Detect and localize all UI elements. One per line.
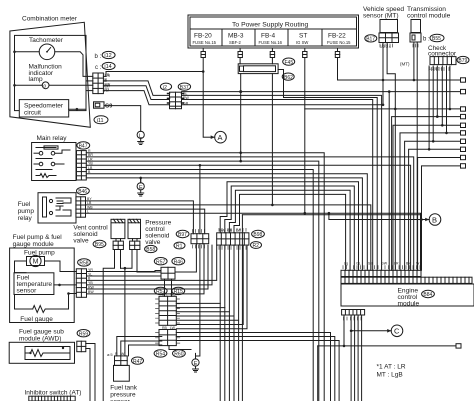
svg-text:i2: i2 [163, 85, 167, 91]
svg-text:Speedometer: Speedometer [24, 103, 64, 110]
wire MB-3 vertical [240, 74, 242, 162]
wire tab row 8 [422, 166, 461, 270]
wire R58 row3 [87, 245, 217, 280]
label pressure control solenoid valve [145, 220, 171, 247]
tachometer [29, 37, 64, 60]
wire main relay row6 [86, 174, 367, 271]
wire comb meter row1 to i2 connector [103, 81, 169, 96]
wire B98 riser 2 [225, 186, 354, 270]
connector R59 [77, 330, 90, 352]
connector B47 [77, 142, 90, 150]
node A [204, 131, 226, 143]
wire meter internal [86, 80, 93, 82]
wire solenoid pressure drop 1 [121, 250, 133, 269]
wire B98 riser 3 [229, 190, 350, 270]
wire R59 down 2 [86, 349, 90, 401]
svg-text:circuit: circuit [24, 110, 41, 117]
wire tab row 6 [409, 149, 461, 270]
svg-text:b :: b : [95, 54, 102, 60]
fuel temperature sensor [14, 273, 54, 295]
wire FB-22 drop [335, 49, 460, 82]
svg-text:1 2 3 4: 1 2 3 4 [380, 45, 391, 49]
svg-text:B47: B47 [79, 144, 88, 150]
wire B37 out row4 [182, 104, 384, 106]
svg-text:Fuel: Fuel [18, 201, 31, 208]
wire MIL left [15, 84, 43, 86]
svg-text:R54: R54 [156, 352, 165, 358]
svg-text:B37: B37 [180, 85, 189, 91]
svg-text:LW: LW [170, 326, 176, 330]
svg-text:1 3 5 7 9: 1 3 5 7 9 [429, 67, 443, 71]
svg-text:MB-3: MB-3 [228, 33, 244, 40]
wire tab row 2 [392, 117, 461, 271]
connector R1 [174, 242, 185, 250]
wire vss pin1 [382, 43, 384, 105]
check connector drop 3 [441, 66, 444, 127]
svg-text:Fuel pump & fuel: Fuel pump & fuel [13, 234, 63, 241]
svg-text:B95: B95 [95, 242, 104, 248]
svg-text:B46: B46 [78, 189, 87, 195]
svg-text:FB-4: FB-4 [261, 33, 275, 40]
note AT/MT [377, 364, 406, 379]
check connector drop 2 [436, 66, 439, 118]
svg-text:a:5: a:5 [107, 352, 113, 357]
B97 pin labels [193, 230, 205, 249]
wire main relay row3 [86, 160, 318, 401]
svg-text:To Power Supply Routing: To Power Supply Routing [232, 22, 309, 29]
wire R54/R60 ground [169, 346, 191, 350]
connector R58 [76, 259, 90, 298]
svg-text:FUSE No.15: FUSE No.15 [327, 40, 351, 45]
wire B feed [329, 213, 423, 221]
svg-text:control module: control module [407, 13, 451, 20]
vss pin labels [380, 44, 393, 47]
svg-text:R1: R1 [176, 244, 183, 250]
svg-text:FB-22: FB-22 [328, 33, 346, 40]
wire R58 row4 [87, 245, 213, 285]
svg-text:valve: valve [145, 239, 161, 246]
wire MB-3 drop [238, 49, 242, 64]
wire R59 down 1 [86, 344, 95, 401]
wire tab row 1 [305, 108, 461, 110]
connector R54/R60 block [154, 330, 185, 358]
wire tachometer signal [103, 72, 203, 77]
wire speedo right [69, 108, 86, 110]
wire R57/R46 down 1 [164, 279, 166, 296]
check connector drop 5 [449, 66, 452, 110]
connector B97 block [176, 230, 208, 243]
wire B98 riser 4 [234, 194, 346, 270]
wire temp sensor [54, 284, 76, 286]
wire fuel pump relay row2 [86, 205, 371, 270]
connector i12/i14 labels [95, 54, 102, 71]
connector F45/B62 [238, 58, 295, 81]
connector R47 [132, 357, 144, 365]
svg-text:sensor: sensor [17, 288, 38, 295]
svg-text:i14: i14 [104, 64, 111, 70]
svg-text:o: o [43, 84, 46, 90]
connector B17 [365, 35, 377, 43]
wire main relay row7 [86, 177, 362, 271]
svg-text:B84: B84 [423, 292, 432, 298]
svg-text:C: C [394, 327, 400, 336]
connector R57/R46 [154, 258, 184, 280]
fuel tank pressure sensor [110, 356, 137, 401]
wire MIL right [49, 84, 93, 86]
micro wire labels [87, 45, 443, 356]
svg-text:M: M [33, 259, 39, 266]
R57/R15 pin ticks [156, 299, 180, 323]
svg-text:pump: pump [18, 208, 35, 215]
pressure control solenoid valve 1 [128, 219, 141, 249]
wire B98 bottom drop 1 [176, 245, 220, 401]
svg-text:B58: B58 [146, 247, 155, 253]
svg-text:i12: i12 [104, 53, 111, 59]
ground E (main relay) [137, 179, 144, 196]
wire ftps 2 [121, 341, 162, 356]
wire ECM vertical 375 [388, 92, 390, 271]
wire B37 out row1 [182, 90, 461, 93]
svg-text:LR: LR [394, 262, 399, 266]
fuel pump [24, 250, 55, 267]
svg-text:c :: c : [95, 65, 102, 71]
svg-text:ST: ST [299, 33, 307, 40]
vehicle speed sensor [363, 6, 404, 43]
wire solenoid pressure drop 2 [137, 250, 161, 273]
svg-text:R47: R47 [133, 359, 142, 365]
svg-text:B98: B98 [253, 232, 262, 238]
svg-text:FB-20: FB-20 [194, 33, 212, 40]
check pin labels [429, 68, 449, 71]
engine control module lower strip [342, 310, 365, 316]
wire main relay row1 [86, 151, 324, 401]
svg-text:gauge module: gauge module [13, 241, 55, 248]
wire big loop left [242, 215, 420, 401]
connector i12 [102, 51, 115, 59]
B98 pin labels [219, 228, 246, 249]
svg-text:F45: F45 [285, 60, 294, 66]
svg-text:*1 AT : LR: *1 AT : LR [377, 364, 406, 371]
svg-text:module: module [398, 301, 420, 308]
wire fuel pump relay row1 [86, 201, 194, 234]
main relay [32, 135, 76, 181]
check connector drop 6 [428, 66, 431, 151]
wire ST drop [303, 49, 307, 215]
svg-text:lamp: lamp [29, 76, 43, 83]
connector B98/R2 block [217, 230, 265, 249]
svg-text:B: B [432, 215, 437, 224]
wire fuel pump loop [15, 261, 27, 273]
wires ECM lower strip down [344, 315, 362, 401]
svg-text:R60: R60 [174, 352, 183, 358]
wire fuel pump relay row3 [86, 209, 205, 234]
svg-text:IG SW: IG SW [296, 40, 308, 45]
ground L (combination meter) [137, 131, 144, 144]
wire R58 row5 [87, 245, 209, 289]
wire R58 row2 [87, 275, 162, 277]
svg-text:Combination meter: Combination meter [22, 16, 78, 23]
svg-text:valve: valve [73, 238, 89, 245]
svg-text:Tachometer: Tachometer [29, 37, 64, 44]
svg-text:sensor (MT): sensor (MT) [363, 13, 399, 20]
svg-text:Fuel pump: Fuel pump [24, 250, 55, 257]
connector i11 [94, 116, 108, 124]
wire ftps 3 [129, 345, 162, 356]
svg-text:Inhibitor switch (AT): Inhibitor switch (AT) [25, 390, 82, 397]
connector B55 [423, 34, 444, 42]
check connector drop 1 [432, 66, 435, 143]
svg-text:B97: B97 [178, 232, 187, 238]
wire vss pin3 [387, 43, 395, 271]
main relay connector block [77, 151, 87, 180]
wire tab row 7 [418, 158, 461, 271]
check connector [428, 45, 457, 65]
svg-text:B55: B55 [432, 36, 441, 42]
wire solenoid vent drop 2 [121, 250, 127, 356]
wire B98 bottom drop 5 [176, 245, 238, 401]
svg-text:A: A [218, 133, 223, 142]
wire B37 out row3 [182, 100, 373, 271]
inhibitor switch [25, 390, 82, 401]
wire B98 bottom drop 2 [176, 245, 225, 401]
wire B98 bottom drop 4 [176, 245, 234, 401]
transmission control module [407, 6, 451, 42]
wire solenoid vent drop 1 [103, 250, 114, 401]
svg-text:b :: b : [423, 37, 430, 43]
svg-text:R58: R58 [79, 261, 88, 267]
ECM lower strip pin labels [344, 317, 362, 320]
svg-text:module (AWD): module (AWD) [19, 336, 61, 343]
wire B98 bottom drop 6 [176, 245, 243, 324]
svg-text:R46: R46 [174, 259, 183, 265]
svg-text:Fuel tank: Fuel tank [110, 385, 137, 392]
svg-text:MT : LgB: MT : LgB [377, 372, 403, 379]
wire tab row 5 [405, 141, 461, 270]
connector B46 [77, 187, 90, 195]
wire tab row 3 [393, 125, 461, 270]
wire R54/R60 row1 [176, 333, 330, 401]
combination meter outline [10, 22, 90, 127]
wire B37 out row2 [182, 95, 382, 270]
node B [415, 214, 441, 226]
R54/R60 pin ticks [156, 333, 180, 344]
wire comb meter row2 to i2 connector [103, 86, 169, 100]
malfunction indicator lamp [29, 64, 63, 90]
wire B98 bottom drop 3 [176, 245, 229, 401]
combination meter connector block [93, 73, 111, 94]
power supply routing box [188, 15, 359, 48]
svg-text:(MT): (MT) [400, 62, 410, 67]
wire R54/R60 row2 [176, 337, 334, 401]
svg-text:Fuel gauge sub: Fuel gauge sub [19, 329, 64, 336]
trans pin labels [413, 44, 418, 47]
svg-text:RB: RB [162, 326, 168, 330]
wire R57/R46 down 2 [171, 279, 173, 296]
svg-text:Main relay: Main relay [37, 135, 68, 142]
connector B84 [422, 290, 435, 298]
ECM pin labels above strip [343, 266, 420, 269]
check connector drop 4 [445, 66, 448, 134]
svg-text:B17: B17 [366, 37, 375, 43]
vent control solenoid valve [73, 219, 125, 249]
fuel pump relay [18, 193, 76, 223]
svg-text:FUSE No.15: FUSE No.15 [193, 40, 217, 45]
svg-text:G9: G9 [105, 103, 112, 109]
engine control module connector strip 2 [341, 277, 472, 283]
wire main relay row4 [86, 164, 410, 270]
wire bottom long tab [318, 344, 461, 401]
wire transmission module b [400, 42, 415, 81]
svg-text:R59: R59 [79, 331, 88, 337]
wire R54/R60 row3 [176, 341, 339, 401]
wire C node feed [351, 330, 352, 332]
svg-text:SBF-2: SBF-2 [229, 40, 242, 45]
connector B95 [93, 240, 106, 248]
ground E (bottom) [192, 353, 199, 372]
wire tach right [55, 52, 93, 77]
connector B58 [145, 245, 157, 253]
connector R57/R15 [154, 287, 184, 325]
svg-text:i11: i11 [97, 118, 104, 124]
wire B98 riser 1 [220, 182, 358, 270]
wire tab row 4 [400, 133, 461, 270]
node C [350, 325, 403, 337]
wire B62 out [278, 70, 377, 271]
svg-text:LW: LW [236, 229, 242, 233]
wire G9 ground [104, 106, 141, 132]
wire comb meter row3 to i2 connector [103, 91, 169, 105]
wire FB-4 drop [270, 49, 274, 207]
wire B98 bottom drop 7 [176, 245, 247, 329]
engine control module connector strip 1 [341, 270, 421, 276]
wire fuel pump relay row4 [86, 212, 421, 270]
svg-text:Fuel gauge: Fuel gauge [20, 316, 53, 323]
wire meter internal 2 [86, 90, 93, 92]
wire FB-20 drop [201, 49, 205, 138]
svg-text:FUSE No.16: FUSE No.16 [259, 40, 283, 45]
fuel gauge [15, 292, 77, 323]
wire B97 down 2 [196, 244, 200, 359]
svg-text:B62: B62 [284, 75, 293, 81]
speedometer circuit [19, 100, 68, 117]
wire R58 row6 [87, 244, 205, 294]
engine control module box [341, 284, 474, 308]
wire tach left [15, 51, 40, 53]
svg-text:R57: R57 [156, 259, 165, 265]
wire main relay row5 [86, 170, 313, 401]
wire main relay row2 [86, 157, 413, 270]
fuel pump relay connector block [76, 197, 86, 217]
fuel gauge sub module [9, 329, 74, 364]
connector i2/B37 [160, 83, 190, 109]
wire ftps 1 [117, 337, 162, 356]
wire B97 center riser [199, 165, 201, 233]
svg-text:pressure: pressure [110, 392, 136, 399]
connector i14 [102, 62, 115, 70]
connector B79 [457, 56, 469, 64]
wire trans module pin2 [416, 42, 418, 270]
svg-text:R2: R2 [253, 243, 260, 249]
right edge terminal tabs [461, 78, 466, 168]
connector G9 [94, 102, 113, 110]
svg-text:B79: B79 [458, 58, 467, 64]
svg-text:relay: relay [18, 215, 33, 222]
wire B97 down 1 [175, 244, 196, 272]
wire R58 row1 [87, 271, 162, 272]
fuel pump & fuel gauge module box [10, 234, 75, 323]
